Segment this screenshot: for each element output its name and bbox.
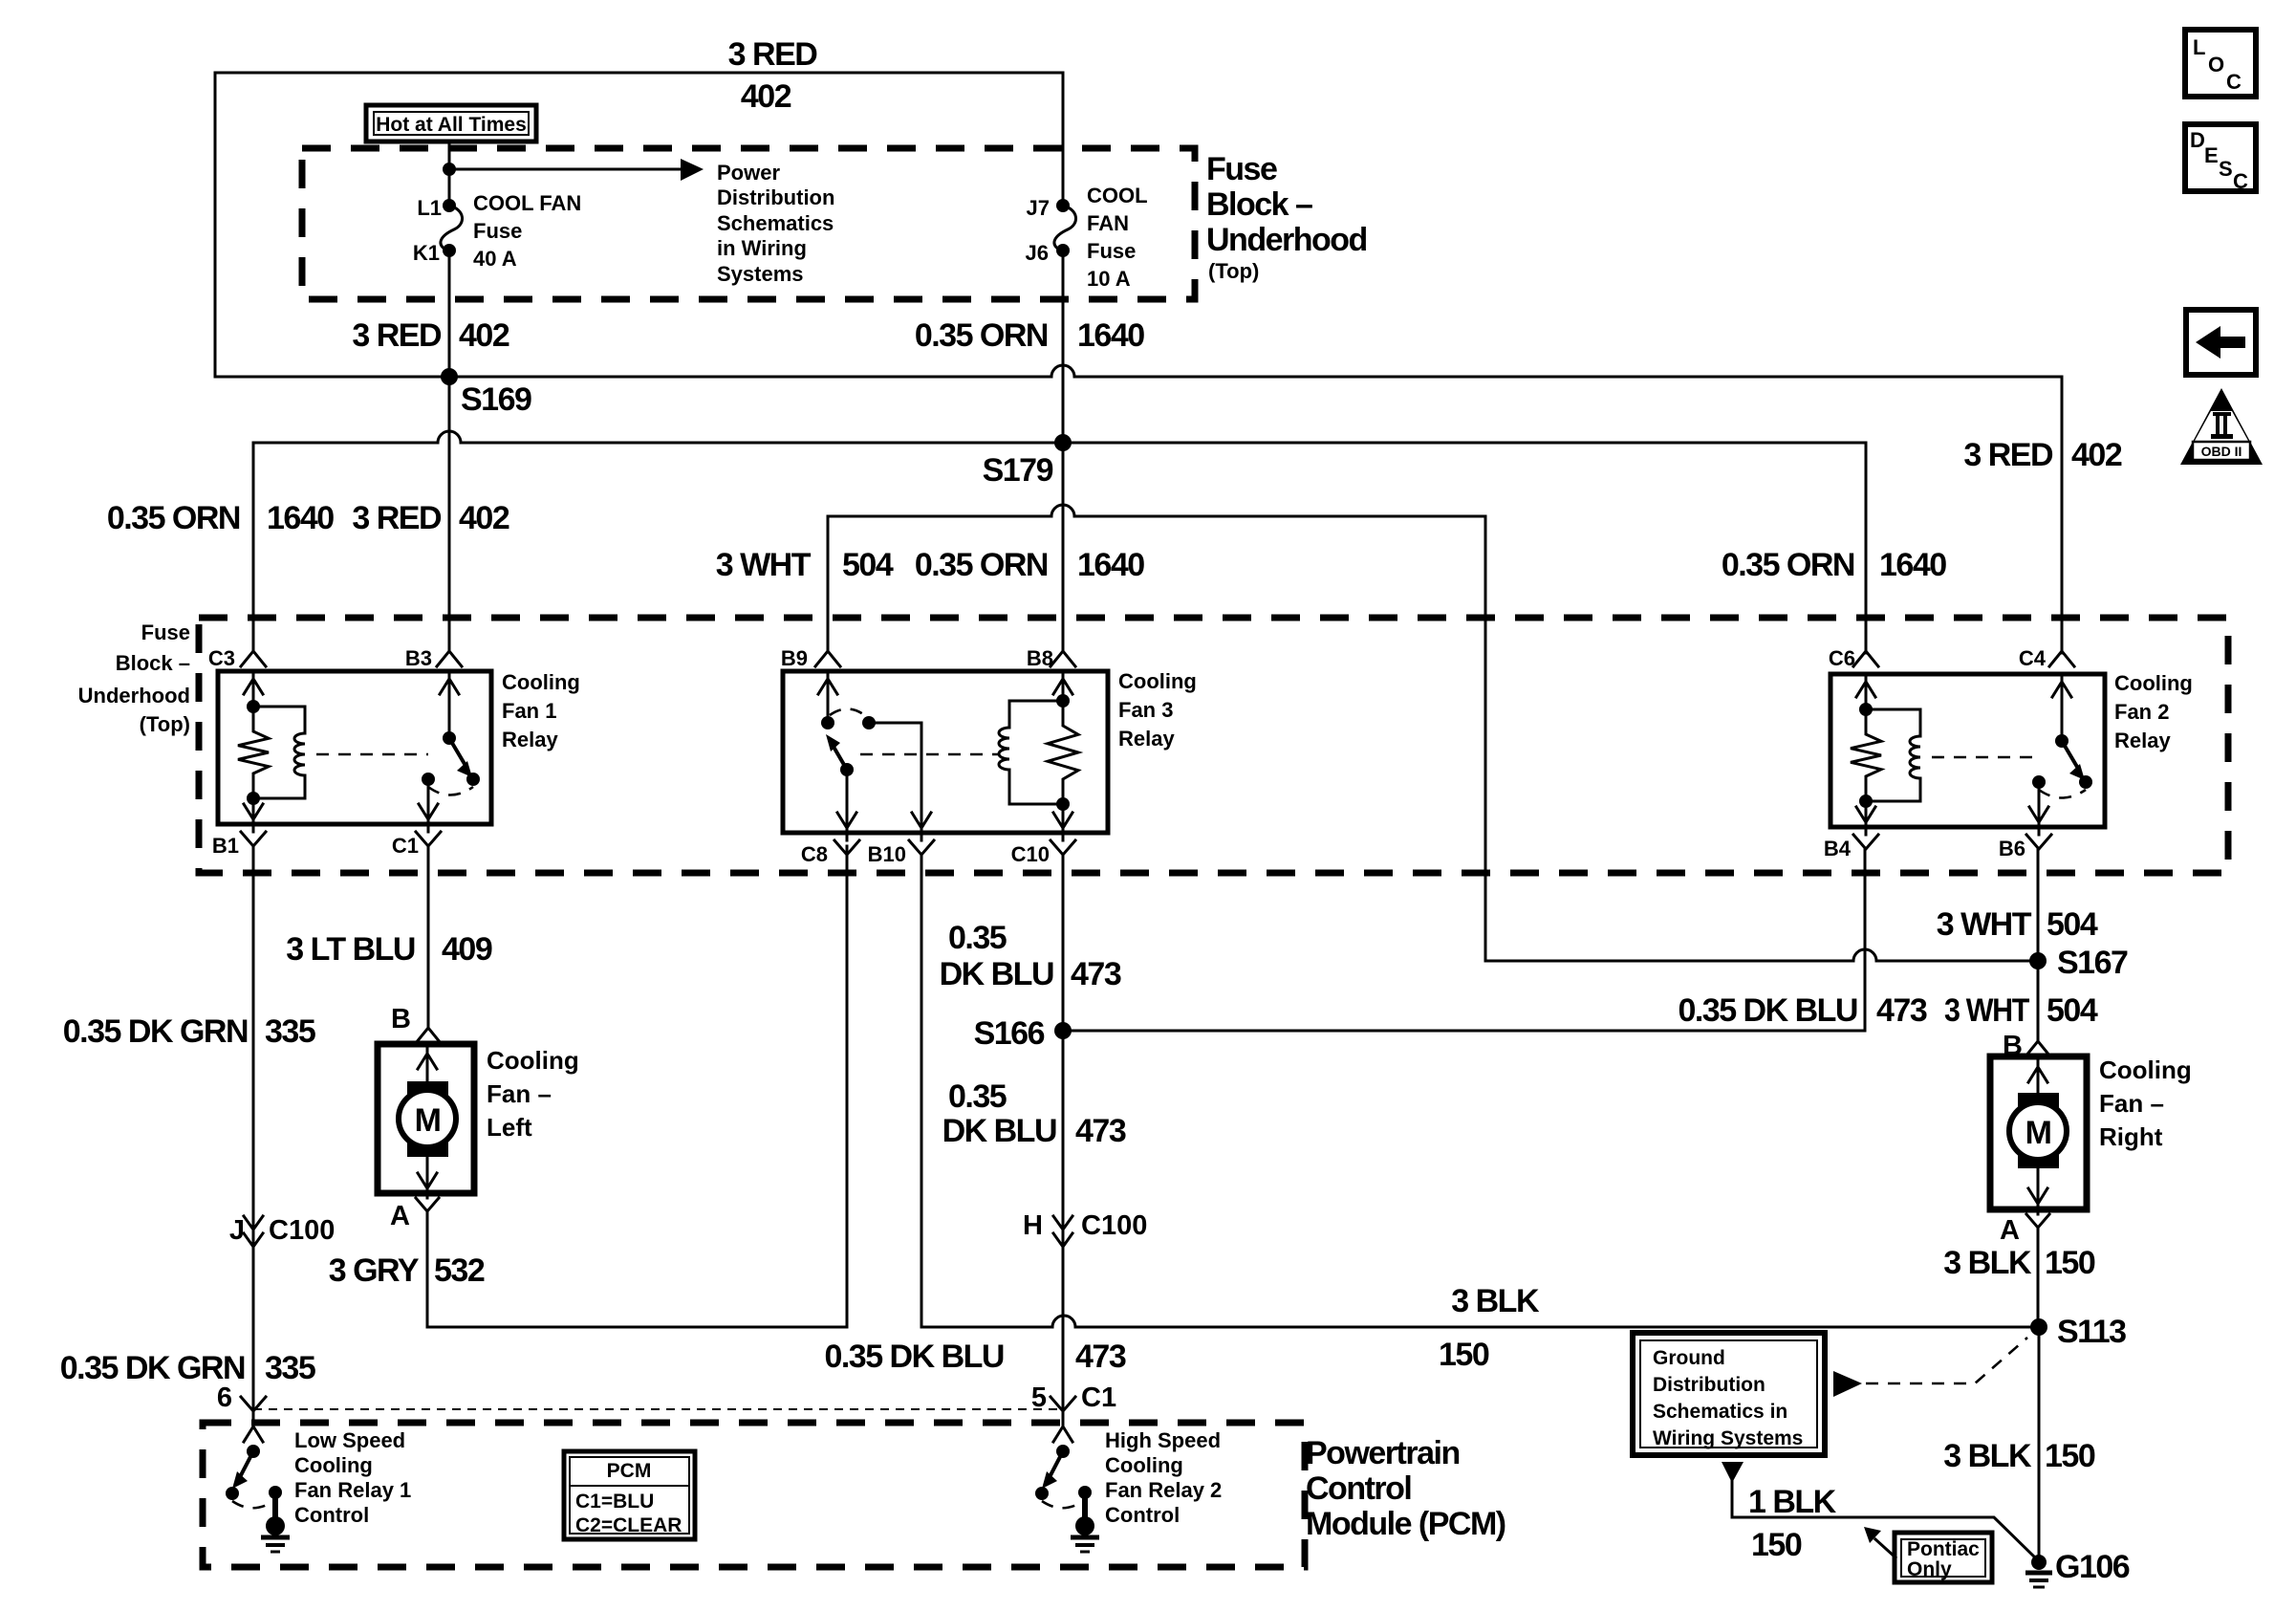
svg-text:L1: L1	[417, 196, 442, 220]
node: branch dot to power distribution arrow	[443, 163, 456, 176]
svg-text:Hot at All Times: Hot at All Times	[376, 114, 527, 136]
svg-text:150: 150	[1439, 1337, 1489, 1373]
svg-text:3 RED: 3 RED	[352, 317, 442, 354]
wire hop: DK BLU over BLK bus	[1052, 1316, 1075, 1327]
arrowhead: to Power Distribution Schematics	[681, 159, 704, 181]
svg-text:3 WHT: 3 WHT	[1944, 992, 2030, 1029]
svg-text:J7: J7	[1027, 196, 1050, 220]
relay K3 actuator dashed link	[860, 753, 998, 756]
svg-text:L: L	[2193, 35, 2205, 59]
svg-text:Underhood: Underhood	[1206, 222, 1367, 258]
svg-text:D: D	[2190, 128, 2205, 152]
svg-text:C100: C100	[1081, 1210, 1147, 1241]
svg-text:402: 402	[741, 78, 791, 115]
relay K3 coil	[999, 728, 1009, 770]
svg-text:B: B	[391, 1004, 411, 1034]
wire: 0.35 DK BLU 473 S166 run to B4	[1063, 1030, 1865, 1033]
svg-text:DK BLU: DK BLU	[942, 1113, 1056, 1149]
svg-text:Control: Control	[294, 1503, 369, 1527]
svg-text:40 A: 40 A	[473, 247, 517, 271]
wire: feed into COOL FAN fuse 40A	[448, 142, 451, 201]
svg-text:504: 504	[2047, 906, 2098, 943]
svg-text:B8: B8	[1027, 646, 1053, 670]
node S169 splice dot	[441, 368, 458, 385]
svg-text:C8: C8	[801, 842, 828, 866]
wire: B10 drop to ground bus	[921, 855, 923, 1327]
svg-text:H: H	[1023, 1210, 1043, 1241]
svg-text:in Wiring: in Wiring	[717, 236, 807, 260]
relay K1 coil connection	[253, 707, 305, 798]
svg-text:6: 6	[217, 1382, 232, 1413]
svg-text:C: C	[2226, 70, 2242, 94]
pointer: ground distribution down to 1 BLK wire	[1722, 1462, 1744, 1483]
relay K2: Cooling Fan 2 Relay box	[1830, 674, 2105, 827]
wire: 3 BLK 150 bus to S113	[921, 1326, 2039, 1329]
wire: 0.35 DK BLU 473 from C10 through S166 to PCM high-speed driver	[1062, 855, 1065, 1426]
callout box: Pontiac Only	[1895, 1533, 1992, 1582]
svg-text:S166: S166	[974, 1015, 1045, 1052]
relay K2 coil connection	[1866, 709, 1920, 801]
wire: 3 BLK 150 from S113 to G106	[2038, 1327, 2041, 1562]
svg-text:3 GRY: 3 GRY	[329, 1252, 420, 1289]
wire hop: DK BLU over WHT run	[1853, 949, 1876, 961]
svg-text:PCM: PCM	[607, 1460, 652, 1482]
wire: 3 RED 402 from K1 through S169 to relay B3	[448, 250, 451, 650]
svg-text:C6: C6	[1829, 646, 1855, 670]
wire: 3 GRY 532 from fan-left A	[426, 1193, 429, 1327]
svg-text:J: J	[229, 1215, 245, 1246]
svg-text:Fan 3: Fan 3	[1118, 698, 1173, 722]
svg-text:E: E	[2204, 143, 2219, 167]
svg-text:1640: 1640	[1879, 547, 1946, 583]
svg-text:M: M	[2025, 1115, 2051, 1151]
svg-text:M: M	[415, 1102, 441, 1139]
svg-text:B1: B1	[212, 834, 239, 858]
svg-text:C3: C3	[208, 646, 235, 670]
connector pin B1 (bottom)	[252, 824, 255, 832]
svg-text:402: 402	[2071, 437, 2122, 473]
relay K2 actuator dashed link	[1932, 756, 2041, 759]
svg-text:Fan Relay 2: Fan Relay 2	[1105, 1478, 1222, 1502]
svg-text:DK BLU: DK BLU	[940, 956, 1053, 992]
svg-text:3 LT BLU: 3 LT BLU	[286, 931, 415, 968]
svg-text:S167: S167	[2057, 945, 2128, 981]
svg-text:B10: B10	[868, 842, 906, 866]
svg-text:Module (PCM): Module (PCM)	[1306, 1506, 1505, 1542]
svg-text:150: 150	[2045, 1245, 2095, 1281]
svg-text:0.35 ORN: 0.35 ORN	[915, 317, 1048, 354]
relay K3 coil connection	[1009, 701, 1063, 804]
svg-text:A: A	[2000, 1215, 2020, 1246]
svg-text:Power: Power	[717, 161, 780, 185]
fuse F1: COOL FAN Fuse 40 A (terminals L1/K1)	[443, 199, 456, 212]
connector pin B6 (bottom)	[2038, 827, 2041, 835]
svg-text:409: 409	[442, 931, 492, 968]
svg-text:Relay: Relay	[502, 728, 558, 751]
svg-text:0.35 ORN: 0.35 ORN	[107, 500, 240, 536]
connector pin B10 (bottom)	[921, 833, 923, 840]
PCM connector info box: PCM C1=BLU C2=CLEAR	[564, 1451, 695, 1539]
node S166 splice dot	[1054, 1022, 1072, 1039]
relay K1 coil branch (C3-B1)	[252, 671, 255, 707]
svg-text:Schematics in: Schematics in	[1653, 1401, 1787, 1423]
svg-text:Pontiac: Pontiac	[1907, 1538, 1980, 1560]
connector pin C6 (top)	[1853, 651, 1878, 666]
svg-text:Powertrain: Powertrain	[1306, 1435, 1460, 1471]
svg-text:335: 335	[265, 1013, 315, 1050]
svg-text:1640: 1640	[1077, 317, 1144, 354]
box: Powertrain Control Module (PCM) dashed outline	[203, 1423, 1305, 1567]
svg-text:Block –: Block –	[1206, 186, 1312, 223]
svg-text:COOL FAN: COOL FAN	[473, 191, 581, 215]
motor M2: Cooling Fan - Right	[1990, 1056, 2087, 1209]
svg-text:Only: Only	[1907, 1558, 1952, 1580]
connector pin C3 (top)	[241, 651, 266, 666]
svg-text:3 RED: 3 RED	[728, 36, 818, 73]
connector: fan-right pin B	[2025, 1041, 2050, 1056]
svg-text:C2=CLEAR: C2=CLEAR	[575, 1514, 682, 1536]
wire hop: ORN over S169 bus	[1051, 365, 1074, 377]
fuse F2: COOL FAN Fuse 10 A (terminals J7/J6)	[1056, 199, 1070, 212]
svg-text:Cooling: Cooling	[487, 1046, 579, 1075]
wire: 3 LT BLU 409 from C1 to fan-left B	[427, 846, 430, 1027]
svg-text:C1: C1	[392, 834, 419, 858]
svg-text:3 WHT: 3 WHT	[716, 547, 812, 583]
svg-text:0.35: 0.35	[948, 1078, 1007, 1115]
svg-text:B9: B9	[781, 646, 808, 670]
wire: 0.35 DK GRN 335 from B1 to PCM low-speed driver	[252, 846, 255, 1426]
PCM internal: high speed cooling fan relay 2 control driver	[1053, 1426, 1072, 1442]
svg-text:Relay: Relay	[2114, 729, 2171, 752]
svg-text:Fan –: Fan –	[487, 1079, 552, 1108]
wire: 3 WHT 504 from B6 through S167 to fan-right B	[2037, 849, 2040, 1041]
svg-text:Fuse: Fuse	[1206, 151, 1277, 187]
svg-text:S169: S169	[461, 381, 531, 418]
svg-text:Underhood: Underhood	[78, 684, 190, 708]
node S113 splice dot	[2030, 1318, 2047, 1336]
svg-text:504: 504	[842, 547, 894, 583]
svg-text:Control: Control	[1306, 1470, 1411, 1507]
svg-text:0.35 DK GRN: 0.35 DK GRN	[63, 1013, 248, 1050]
svg-text:(Top): (Top)	[1208, 259, 1259, 283]
svg-text:Relay: Relay	[1118, 727, 1175, 751]
node S179 splice dot	[1054, 434, 1072, 451]
svg-text:0.35 ORN: 0.35 ORN	[915, 547, 1048, 583]
svg-text:150: 150	[1751, 1527, 1802, 1563]
wire: 3 BLK 150 from fan-right A to S113	[2037, 1209, 2040, 1327]
svg-text:A: A	[390, 1201, 410, 1231]
svg-text:Distribution: Distribution	[1653, 1374, 1765, 1396]
svg-text:Control: Control	[1105, 1503, 1180, 1527]
PCM internal: low speed cooling fan relay 1 control driver	[244, 1426, 263, 1442]
svg-text:Cooling: Cooling	[2114, 671, 2193, 695]
pointer: ground distribution to S113	[1833, 1371, 1862, 1397]
svg-text:S113: S113	[2057, 1314, 2126, 1350]
svg-text:3 RED: 3 RED	[1963, 437, 2053, 473]
svg-text:B3: B3	[405, 646, 432, 670]
svg-text:Cooling: Cooling	[2099, 1056, 2192, 1084]
svg-text:Cooling: Cooling	[1105, 1453, 1183, 1477]
svg-text:Right: Right	[2099, 1122, 2163, 1151]
power tag box: Hot at All Times	[366, 105, 536, 142]
svg-text:0.35 DK GRN: 0.35 DK GRN	[60, 1350, 245, 1386]
svg-text:0.35 ORN: 0.35 ORN	[1722, 547, 1854, 583]
callout box: Ground Distribution Schematics in Wiring Systems	[1633, 1333, 1825, 1455]
connector pin C8 (bottom)	[846, 833, 849, 840]
thin dashed connector line between PCM pins 6 and 5	[253, 1408, 1063, 1410]
relay K1: Cooling Fan 1 Relay box	[218, 671, 491, 824]
wire: 0.35 ORN 1640 from S179 to relay B8	[1062, 443, 1065, 650]
svg-text:Cooling: Cooling	[294, 1453, 373, 1477]
wire: 3 RED 402 drop to COOL FAN fuse 10A (J7)	[1062, 73, 1065, 201]
svg-text:1640: 1640	[1077, 547, 1144, 583]
svg-text:3 RED: 3 RED	[352, 500, 442, 536]
svg-text:3 BLK: 3 BLK	[1451, 1283, 1540, 1319]
svg-text:B6: B6	[1999, 837, 2025, 860]
relay K1 actuator dashed link	[316, 753, 428, 756]
svg-text:COOL: COOL	[1087, 184, 1148, 207]
svg-text:Block –: Block –	[116, 651, 190, 675]
box: Fuse Block - Underhood (Top), upper dashed outline	[302, 148, 1195, 299]
svg-text:Left: Left	[487, 1113, 532, 1142]
svg-text:1 BLK: 1 BLK	[1748, 1484, 1837, 1520]
svg-text:3 BLK: 3 BLK	[1943, 1438, 2032, 1474]
svg-text:402: 402	[459, 317, 509, 354]
svg-text:C: C	[2233, 169, 2248, 193]
wire: arrow line to Power Distribution	[449, 168, 681, 171]
wire hop: ORN over WHT bus	[1051, 505, 1074, 516]
svg-text:C1: C1	[1081, 1382, 1116, 1413]
svg-text:0.35 DK BLU: 0.35 DK BLU	[1678, 992, 1857, 1029]
connector pin C4 (top)	[2049, 651, 2074, 666]
svg-text:Systems: Systems	[717, 262, 804, 286]
svg-text:K1: K1	[413, 241, 440, 265]
connector: PCM pin 5	[1051, 1397, 1075, 1411]
wire: 1 BLK 150 (Pontiac only) to G106	[1732, 1477, 2036, 1558]
wire: 0.35 ORN 1640 from J6 to S179	[1062, 250, 1065, 443]
wire: 3 RED 402 left drop	[214, 73, 217, 377]
svg-text:473: 473	[1075, 1113, 1126, 1149]
svg-text:C10: C10	[1011, 842, 1050, 866]
wire: 0.35 ORN 1640 drop to relay C6	[1865, 443, 1868, 653]
svg-text:335: 335	[265, 1350, 315, 1386]
svg-text:High Speed: High Speed	[1105, 1428, 1221, 1452]
svg-text:C100: C100	[269, 1215, 335, 1246]
relay K3 B10 contact wire	[869, 723, 921, 833]
wire hop: RED over S179 bus	[438, 431, 461, 443]
svg-text:3 BLK: 3 BLK	[1943, 1245, 2032, 1281]
svg-text:Cooling: Cooling	[1118, 669, 1197, 693]
svg-text:10 A: 10 A	[1087, 267, 1131, 291]
svg-text:Fuse: Fuse	[473, 219, 522, 243]
svg-text:473: 473	[1071, 956, 1121, 992]
pointer arrow: Pontiac Only to 1 BLK wire	[1875, 1539, 1895, 1557]
relay K2 coil branch (C6-B4)	[1865, 674, 1868, 709]
relay K1 coil	[294, 733, 305, 775]
wire: 3 RED 402 drop to relay C4	[2061, 377, 2064, 653]
relay K3: Cooling Fan 3 Relay box	[783, 671, 1108, 833]
svg-text:0.35 DK BLU: 0.35 DK BLU	[824, 1339, 1004, 1375]
wire: C8 drop	[846, 846, 849, 1327]
wire: 3 RED 402 top bus	[215, 72, 1063, 75]
svg-text:473: 473	[1075, 1339, 1126, 1375]
connector pin B3 (top)	[437, 651, 462, 666]
svg-text:FAN: FAN	[1087, 211, 1129, 235]
relay K2 switch (C4 common, B6 output)	[2061, 674, 2064, 741]
relay K1 switch (B3 common, C1 output)	[448, 671, 451, 738]
connector pin B9 (top)	[815, 651, 840, 666]
connector pin B8 (top)	[1051, 651, 1075, 666]
svg-text:Fan Relay 1: Fan Relay 1	[294, 1478, 411, 1502]
svg-text:150: 150	[2045, 1438, 2095, 1474]
svg-text:Fuse: Fuse	[141, 620, 190, 644]
box: Fuse Block - Underhood (Top), main dashed outline	[199, 618, 2228, 873]
icon: LOC box	[2185, 30, 2256, 97]
svg-text:Fan 1: Fan 1	[502, 699, 556, 723]
relay K3 coil branch (B8-C10)	[1062, 671, 1065, 701]
svg-text:Low Speed: Low Speed	[294, 1428, 405, 1452]
icon: DESC box	[2185, 124, 2256, 191]
connector pin B4 (bottom)	[1865, 827, 1868, 835]
svg-text:504: 504	[2047, 992, 2098, 1029]
svg-text:1640: 1640	[267, 500, 334, 536]
wire: 3 WHT 504 from B9 to S167	[828, 516, 2038, 961]
svg-text:Schematics: Schematics	[717, 211, 834, 235]
svg-text:OBD II: OBD II	[2201, 444, 2242, 459]
svg-text:G106: G106	[2055, 1549, 2130, 1585]
ground G106	[2031, 1555, 2047, 1570]
svg-text:532: 532	[434, 1252, 485, 1289]
svg-text:O: O	[2208, 53, 2224, 76]
svg-text:C1=BLU: C1=BLU	[575, 1491, 654, 1513]
connector: PCM pin 6	[241, 1397, 266, 1411]
svg-text:J6: J6	[1026, 241, 1049, 265]
wire: 0.35 DK BLU 473 from B4 down to S166 run	[1864, 849, 1867, 1031]
svg-text:Distribution: Distribution	[717, 185, 834, 209]
svg-text:S179: S179	[983, 452, 1053, 489]
wire: 0.35 ORN 1640 drop from S179 to relay C3	[252, 443, 255, 650]
svg-text:Wiring Systems: Wiring Systems	[1653, 1427, 1803, 1449]
connector pin C10 (bottom)	[1062, 833, 1065, 840]
icon: back-arrow box	[2186, 310, 2256, 375]
node S167 splice dot	[2029, 952, 2047, 969]
svg-text:0.35: 0.35	[948, 920, 1007, 956]
connector pin C1 (bottom)	[427, 824, 430, 832]
svg-text:C4: C4	[2019, 646, 2047, 670]
relay K2 coil	[1910, 736, 1920, 778]
svg-text:3 WHT: 3 WHT	[1937, 906, 2032, 943]
icon: OBD II triangle	[2180, 388, 2263, 465]
svg-text:402: 402	[459, 500, 509, 536]
connector: fan-left pin B	[416, 1028, 441, 1043]
svg-text:Fan –: Fan –	[2099, 1089, 2164, 1118]
svg-text:B4: B4	[1824, 837, 1852, 860]
svg-text:(Top): (Top)	[140, 712, 190, 736]
svg-text:Cooling: Cooling	[502, 670, 580, 694]
wire: 0.35 ORN 1640 S179 bus	[253, 442, 1866, 445]
relay K3 switch (B9 common, C8 / B10 contacts)	[827, 671, 830, 723]
svg-text:Fuse: Fuse	[1087, 239, 1136, 263]
wire: 3 RED 402 S169 bus	[215, 376, 2062, 379]
svg-text:473: 473	[1876, 992, 1927, 1029]
motor M1: Cooling Fan - Left	[378, 1044, 474, 1193]
svg-text:S: S	[2219, 157, 2233, 181]
wire: 3 GRY 532 run to relay K3 C8	[427, 1326, 847, 1329]
svg-text:Fan 2: Fan 2	[2114, 700, 2169, 724]
svg-text:Ground: Ground	[1653, 1347, 1725, 1369]
